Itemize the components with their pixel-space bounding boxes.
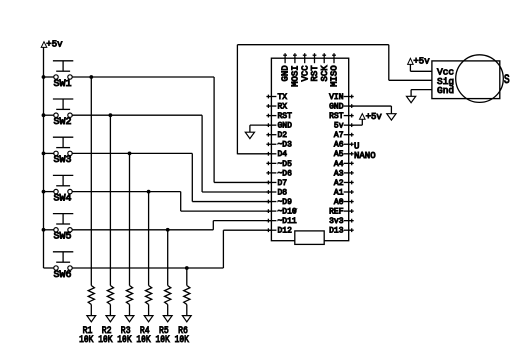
svg-text:3v3: 3v3 [329,217,344,226]
svg-text:A1: A1 [334,188,344,197]
svg-text:SW4: SW4 [54,193,72,204]
svg-text:+5v: +5v [413,56,430,66]
svg-text:A2: A2 [334,179,344,188]
svg-text:~D5: ~D5 [278,160,293,169]
svg-text:D8: D8 [278,188,288,197]
svg-text:10K: 10K [98,335,112,346]
svg-text:~D11: ~D11 [278,217,297,226]
svg-text:GND: GND [278,122,293,131]
svg-text:RST: RST [278,112,293,121]
svg-text:GND: GND [329,102,344,111]
svg-text:A3: A3 [334,169,344,178]
svg-text:5v: 5v [334,122,344,131]
svg-text:TX: TX [278,93,288,102]
svg-text:RST: RST [310,65,320,82]
svg-text:D12: D12 [278,227,293,236]
svg-text:10K: 10K [175,335,189,346]
svg-text:VCC: VCC [300,65,310,82]
svg-text:D4: D4 [278,150,288,159]
svg-text:D13: D13 [329,227,344,236]
svg-text:SW2: SW2 [54,117,72,128]
svg-text:SW3: SW3 [54,155,72,166]
svg-text:SW1: SW1 [54,79,72,90]
svg-text:RX: RX [278,102,288,111]
svg-text:+5v: +5v [46,40,63,50]
svg-text:NANO: NANO [354,151,376,161]
svg-text:A6: A6 [334,141,344,150]
svg-text:10K: 10K [79,335,93,346]
svg-text:A4: A4 [334,160,344,169]
svg-text:MOSI: MOSI [291,65,301,87]
svg-text:+5v: +5v [366,112,383,122]
svg-text:MISO: MISO [330,65,340,87]
svg-text:~D9: ~D9 [278,198,293,207]
svg-text:Gnd: Gnd [437,85,454,96]
svg-text:GND: GND [281,65,291,81]
svg-text:~D6: ~D6 [278,169,293,178]
svg-text:10K: 10K [117,335,131,346]
svg-text:SCK: SCK [320,65,330,82]
svg-text:D7: D7 [278,179,288,188]
svg-text:VIN: VIN [329,93,344,102]
svg-text:S: S [504,72,510,87]
svg-text:A5: A5 [334,150,344,159]
svg-text:10K: 10K [156,335,170,346]
svg-text:A7: A7 [334,131,344,140]
svg-text:REF: REF [329,208,344,217]
svg-text:RST: RST [329,112,344,121]
svg-text:U: U [354,142,359,152]
svg-text:10K: 10K [136,335,150,346]
svg-text:~D3: ~D3 [278,141,293,150]
svg-text:SW5: SW5 [54,232,72,243]
svg-text:SW6: SW6 [54,270,72,281]
svg-text:D2: D2 [278,131,288,140]
